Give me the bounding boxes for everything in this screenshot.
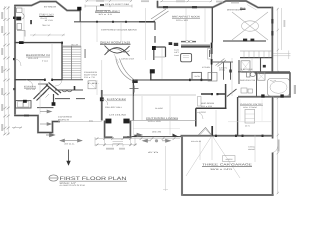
wic tick — [240, 8, 246, 10]
exterior wall: garage left — [181, 135, 183, 196]
front dim arrows — [143, 139, 171, 142]
svg-text:MUD ROOM: MUD ROOM — [201, 102, 214, 105]
study east wall — [79, 10, 81, 21]
svg-text:BATH RM: BATH RM — [84, 74, 98, 77]
tub faucet marks — [270, 80, 276, 83]
great room east wall — [154, 22, 156, 43]
svg-text:PORCH: PORCH — [58, 119, 70, 122]
svg-text:11'0 x 11'6: 11'0 x 11'6 — [26, 88, 35, 91]
entry porch walls — [105, 121, 131, 138]
half bath fixtures — [17, 8, 26, 37]
svg-text:12'0 x 11'6: 12'0 x 11'6 — [28, 57, 38, 60]
svg-text:SLOPE: SLOPE — [155, 107, 164, 110]
left dimension lines — [5, 6, 8, 135]
garage door jambs — [215, 135, 217, 137]
door jambs kitchen — [189, 79, 191, 81]
svg-text:16'0 x 8'0: 16'0 x 8'0 — [152, 131, 162, 134]
svg-text:THREE CAR GARAGE: THREE CAR GARAGE — [202, 163, 252, 167]
tray ceiling corner line — [247, 5, 257, 11]
entry down arrow — [68, 150, 70, 162]
window dash on left wall — [13, 17, 16, 19]
svg-text:ACCESS: ACCESS — [226, 158, 234, 161]
closet wall by foyer — [150, 70, 152, 80]
exterior wall: garage bottom — [182, 194, 274, 196]
svg-text:14'0 x 10'0: 14'0 x 10'0 — [148, 120, 161, 123]
foyer butterfly winder marks — [105, 46, 130, 57]
master ceiling X — [232, 12, 268, 40]
svg-text:STUDY 12x13: STUDY 12x13 — [39, 13, 54, 16]
water heater — [245, 109, 255, 123]
stairs — [62, 46, 81, 80]
garage court faint lines — [228, 121, 271, 123]
curved stair arcs at foyer — [102, 54, 135, 90]
window dashes top wall — [163, 6, 168, 8]
attic box — [223, 156, 235, 162]
svg-text:COVERED: COVERED — [58, 116, 73, 119]
svg-text:9'0: 9'0 — [89, 119, 93, 122]
garage service door leaf — [273, 147, 278, 153]
garage interior — [211, 126, 213, 136]
outdoor living corner piers — [132, 134, 139, 137]
bottom dimension string — [95, 137, 180, 147]
svg-text:10 x 12: 10 x 12 — [98, 13, 112, 16]
garage top wall — [181, 135, 273, 137]
svg-text:DN 17R: DN 17R — [71, 43, 79, 46]
toilet — [247, 72, 251, 77]
shower master bath — [241, 61, 250, 73]
svg-text:8'0 x 6'8: 8'0 x 6'8 — [201, 105, 212, 108]
svg-text:GALLERY HALL: GALLERY HALL — [105, 106, 123, 109]
kitchen south wall — [150, 79, 212, 81]
covered porch edge — [58, 121, 102, 123]
svg-text:POWDER: POWDER — [84, 71, 98, 74]
svg-text:4'8 O.C.: 4'8 O.C. — [64, 142, 76, 145]
exterior wall: top-left and study bay — [14, 2, 80, 11]
foyer east wall — [132, 80, 134, 121]
kitchen counters — [181, 45, 210, 47]
dim vertical below front — [163, 146, 168, 191]
svg-text:TRAY CLG: TRAY CLG — [42, 24, 51, 27]
svg-text:ALL DIMS TO FACE OF STUD: ALL DIMS TO FACE OF STUD — [60, 184, 86, 187]
interior dim vertical center — [24, 8, 255, 162]
left rotated dimension text — [1, 12, 3, 19]
right margin rotated text — [294, 85, 296, 94]
master vanity — [223, 40, 266, 42]
entry steps — [113, 139, 124, 144]
svg-text:COV. STOOP: COV. STOOP — [243, 106, 258, 109]
walk-in closet dim line — [85, 5, 132, 11]
door jambs corridor — [44, 79, 46, 81]
svg-text:10'0 x 10'0: 10'0 x 10'0 — [176, 19, 189, 22]
column cross at foyer east — [133, 86, 135, 93]
mudroom walls — [196, 84, 227, 127]
title bubble — [49, 175, 58, 181]
linen closet — [88, 81, 96, 89]
outdoor living edge — [131, 120, 196, 122]
svg-text:LIN.: LIN. — [88, 82, 101, 85]
svg-text:KITCHEN: KITCHEN — [202, 66, 211, 69]
door arcs — [15, 59, 203, 119]
svg-text:COFFERED CEILING ABOVE: COFFERED CEILING ABOVE — [101, 29, 138, 32]
study south wall — [74, 21, 155, 23]
powder room walls — [153, 47, 165, 60]
bottom-left ticks — [12, 126, 22, 129]
svg-text:WHIRLPOOL TUB: WHIRLPOOL TUB — [240, 79, 256, 82]
extra dim text smudges — [141, 0, 149, 2]
svg-text:GREAT ROOM 17x19: GREAT ROOM 17x19 — [100, 40, 130, 44]
hall walls near laundry — [53, 94, 55, 106]
corner arrows — [46, 133, 142, 136]
whirlpool tub — [268, 79, 290, 97]
laundry — [16, 101, 32, 108]
right side dimension lines — [273, 8, 291, 194]
svg-text:12'8 CEILING: 12'8 CEILING — [109, 114, 127, 117]
master closet walls — [240, 50, 272, 52]
exterior wall: garage right — [272, 97, 274, 196]
svg-text:M. BATH 12x10: M. BATH 12x10 — [241, 68, 254, 71]
svg-text:10' CLG: 10' CLG — [45, 19, 54, 22]
breakfast-master wall — [211, 7, 213, 42]
porch door jamb blobs — [105, 119, 111, 124]
angled gallery hall — [34, 83, 62, 101]
svg-text:BAY WINDOW: BAY WINDOW — [44, 5, 57, 8]
kitchen interior walls — [212, 62, 233, 80]
svg-text:5'0 x 7'6: 5'0 x 7'6 — [84, 76, 95, 79]
svg-text:36'8 x 24'0: 36'8 x 24'0 — [210, 168, 234, 171]
svg-text:CURVED STAIR: CURVED STAIR — [121, 58, 135, 61]
exterior wall: stoop wall — [238, 96, 291, 98]
master bath walls — [260, 58, 262, 72]
powder fixtures — [169, 42, 173, 45]
angled wall near kitchen top — [151, 9, 169, 21]
hall door diagonal — [216, 59, 227, 67]
kitchen island — [181, 54, 192, 62]
exterior wall: left — [14, 5, 16, 115]
interior dim line under study — [30, 34, 65, 36]
svg-text:22'4 CLOSET DIM: 22'4 CLOSET DIM — [105, 3, 129, 6]
pantry — [192, 72, 201, 79]
svg-text:6'0: 6'0 — [148, 151, 158, 154]
mudroom lockers — [241, 88, 247, 93]
porch width arrow — [60, 139, 82, 142]
mudroom bench — [198, 97, 202, 107]
top dimension marks — [85, 0, 212, 2]
keynote arrows — [40, 110, 52, 126]
shower — [258, 73, 266, 81]
foyer west wall — [101, 90, 103, 121]
fireplace block — [77, 7, 81, 11]
exterior wall: bottom-left porch jog — [14, 116, 60, 133]
exterior wall: bath bump — [255, 73, 290, 97]
svg-text:STEP: STEP — [199, 111, 207, 114]
porch interior edge line — [102, 94, 196, 96]
corridor wall bedroom wing — [15, 79, 63, 81]
front wall middle — [127, 136, 181, 138]
svg-text:W.I.C.: W.I.C. — [240, 7, 246, 10]
exterior wall: top middle / master — [157, 1, 273, 8]
bedroom2 top wall — [15, 42, 63, 44]
exterior wall: right upper — [271, 7, 273, 73]
kitchen west wall — [211, 43, 213, 80]
svg-text:9' CLG: 9' CLG — [42, 59, 49, 62]
